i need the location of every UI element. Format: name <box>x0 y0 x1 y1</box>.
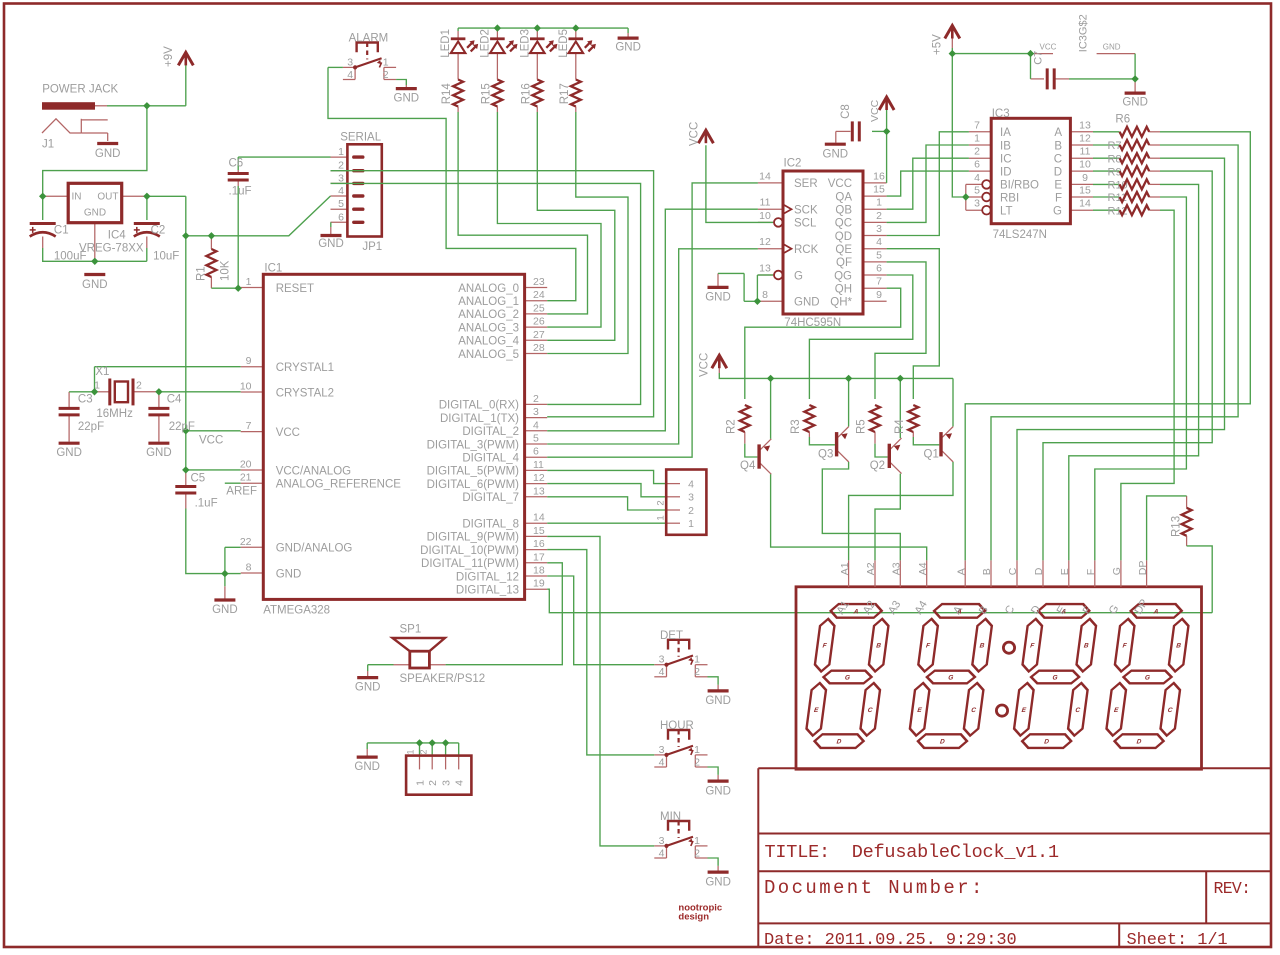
svg-text:GND: GND <box>276 568 302 580</box>
svg-text:10: 10 <box>759 210 771 222</box>
svg-text:2: 2 <box>427 780 439 786</box>
svg-text:GND: GND <box>82 279 108 291</box>
svg-text:3: 3 <box>440 780 452 786</box>
svg-text:F: F <box>1055 192 1062 204</box>
svg-text:9: 9 <box>876 289 882 301</box>
svg-text:2: 2 <box>694 847 700 859</box>
svg-text:1: 1 <box>876 197 882 209</box>
svg-text:VCC: VCC <box>699 353 711 377</box>
svg-text:4: 4 <box>533 419 539 431</box>
svg-text:DIGITAL_9(PWM): DIGITAL_9(PWM) <box>427 532 520 544</box>
svg-text:POWER JACK: POWER JACK <box>42 83 118 95</box>
svg-text:OUT: OUT <box>97 192 118 203</box>
svg-text:MIN: MIN <box>660 811 681 823</box>
svg-text:10: 10 <box>1079 159 1091 171</box>
svg-text:4: 4 <box>347 69 353 81</box>
svg-text:C1: C1 <box>54 224 69 236</box>
svg-text:G: G <box>1144 675 1150 682</box>
svg-text:SCK: SCK <box>794 205 818 217</box>
svg-text:3: 3 <box>347 56 353 68</box>
svg-text:2: 2 <box>383 69 389 81</box>
svg-text:QF: QF <box>836 257 852 269</box>
svg-text:VCC/ANALOG: VCC/ANALOG <box>276 465 351 477</box>
svg-text:R13: R13 <box>1171 516 1183 537</box>
svg-text:12: 12 <box>1079 133 1091 145</box>
svg-text:LED2: LED2 <box>479 29 491 58</box>
svg-text:GND: GND <box>394 93 420 105</box>
svg-text:C5: C5 <box>191 473 206 485</box>
svg-text:DIGITAL_13: DIGITAL_13 <box>456 585 519 597</box>
svg-text:5: 5 <box>974 185 980 197</box>
svg-text:23: 23 <box>533 276 545 288</box>
svg-text:3: 3 <box>659 744 665 756</box>
svg-text:4: 4 <box>876 236 882 248</box>
svg-text:6: 6 <box>338 211 344 223</box>
svg-text:RESET: RESET <box>276 283 314 295</box>
svg-text:E: E <box>1059 568 1071 575</box>
svg-text:RCK: RCK <box>794 244 819 256</box>
svg-text:16MHz: 16MHz <box>96 408 133 420</box>
svg-text:SPEAKER/PS12: SPEAKER/PS12 <box>400 673 486 685</box>
svg-text:R16: R16 <box>520 83 532 104</box>
svg-text:4: 4 <box>688 478 694 490</box>
svg-text:R3: R3 <box>790 419 802 434</box>
svg-text:7: 7 <box>974 119 980 131</box>
svg-text:IC3G$2: IC3G$2 <box>1078 14 1090 52</box>
svg-text:R14: R14 <box>441 83 453 105</box>
svg-text:C2: C2 <box>151 224 166 236</box>
svg-text:.1uF: .1uF <box>195 498 218 510</box>
svg-text:DP: DP <box>1137 561 1149 576</box>
svg-text:G: G <box>1052 675 1058 682</box>
svg-text:C: C <box>1054 154 1062 166</box>
svg-text:IC1: IC1 <box>264 262 282 274</box>
svg-text:12: 12 <box>759 236 771 248</box>
svg-text:11: 11 <box>760 197 771 209</box>
svg-text:24: 24 <box>533 289 545 301</box>
svg-text:VCC: VCC <box>689 122 701 146</box>
svg-text:2: 2 <box>694 756 700 768</box>
svg-text:G: G <box>794 270 803 282</box>
svg-text:DIGITAL_5(PWM): DIGITAL_5(PWM) <box>427 466 520 478</box>
svg-text:Document Number:: Document Number: <box>764 877 985 899</box>
svg-text:15: 15 <box>873 184 885 196</box>
svg-text:74LS247N: 74LS247N <box>993 229 1047 241</box>
svg-text:ID: ID <box>1000 166 1012 178</box>
svg-text:SERIAL: SERIAL <box>340 131 382 143</box>
svg-text:Q1: Q1 <box>924 448 939 460</box>
svg-text:E: E <box>1054 180 1062 192</box>
svg-text:IC4: IC4 <box>108 229 127 241</box>
svg-text:GND: GND <box>354 761 380 773</box>
svg-text:QA: QA <box>835 191 852 203</box>
svg-text:VCC: VCC <box>1040 42 1057 51</box>
svg-text:4: 4 <box>659 847 665 859</box>
svg-text:VREG-78XX: VREG-78XX <box>79 242 144 254</box>
svg-text:1: 1 <box>974 133 980 145</box>
svg-text:2: 2 <box>656 500 667 505</box>
svg-text:74HC595N: 74HC595N <box>784 317 841 329</box>
svg-text:LED5: LED5 <box>558 29 570 58</box>
svg-text:C: C <box>1007 567 1019 575</box>
svg-text:GND: GND <box>146 447 172 459</box>
svg-text:GND: GND <box>705 695 731 707</box>
svg-text:15: 15 <box>1079 185 1091 197</box>
svg-text:G: G <box>844 675 850 682</box>
svg-text:1: 1 <box>338 146 344 158</box>
svg-text:DIGITAL_0(RX): DIGITAL_0(RX) <box>439 400 519 412</box>
svg-text:C6: C6 <box>229 158 244 170</box>
svg-text:DIGITAL_4: DIGITAL_4 <box>462 453 519 465</box>
svg-text:B: B <box>1054 140 1062 152</box>
svg-text:GND: GND <box>84 208 106 219</box>
svg-text:.1uF: .1uF <box>229 185 252 197</box>
svg-text:QB: QB <box>835 205 852 217</box>
svg-text:A3: A3 <box>891 562 903 575</box>
svg-text:3: 3 <box>688 492 694 504</box>
svg-text:ANALOG_2: ANALOG_2 <box>458 309 519 321</box>
svg-text:GND: GND <box>705 785 731 797</box>
svg-text:VCC: VCC <box>199 435 223 447</box>
svg-text:REV:: REV: <box>1214 879 1251 898</box>
svg-text:SCL: SCL <box>794 218 817 230</box>
svg-text:QE: QE <box>835 244 852 256</box>
svg-text:DIGITAL_6(PWM): DIGITAL_6(PWM) <box>427 479 520 491</box>
svg-text:QH: QH <box>835 284 852 296</box>
svg-text:DIGITAL_11(PWM): DIGITAL_11(PWM) <box>421 558 519 570</box>
svg-text:DIGITAL_10(PWM): DIGITAL_10(PWM) <box>420 545 519 557</box>
svg-text:A: A <box>955 568 967 575</box>
svg-text:R5: R5 <box>856 419 868 434</box>
svg-text:13: 13 <box>1079 119 1091 131</box>
svg-text:Q2: Q2 <box>870 460 885 472</box>
svg-text:LT: LT <box>1000 206 1013 218</box>
svg-text:2: 2 <box>419 749 429 754</box>
svg-text:1: 1 <box>656 515 667 520</box>
svg-text:3: 3 <box>533 406 539 418</box>
svg-text:Date: 2011.09.25. 9:29:30: Date: 2011.09.25. 9:29:30 <box>764 931 1017 950</box>
svg-text:1: 1 <box>694 835 700 847</box>
svg-text:28: 28 <box>533 342 545 354</box>
svg-text:RBI: RBI <box>1000 192 1019 204</box>
svg-text:VCC: VCC <box>869 99 881 122</box>
svg-text:IA: IA <box>1000 127 1011 139</box>
svg-text:R17: R17 <box>559 83 571 104</box>
svg-text:GND: GND <box>355 682 381 694</box>
svg-text:22pF: 22pF <box>169 421 195 433</box>
svg-text:9: 9 <box>246 355 252 367</box>
svg-text:IC: IC <box>1000 154 1012 166</box>
svg-text:IB: IB <box>1000 140 1011 152</box>
svg-text:1: 1 <box>688 518 694 530</box>
svg-text:IC2: IC2 <box>784 158 802 170</box>
svg-text:C3: C3 <box>78 394 93 406</box>
svg-text:IN: IN <box>72 192 82 203</box>
svg-text:D: D <box>1033 567 1045 575</box>
svg-text:SER: SER <box>794 178 818 190</box>
svg-text:GND/ANALOG: GND/ANALOG <box>276 543 353 555</box>
svg-text:X1: X1 <box>95 366 109 378</box>
svg-text:2: 2 <box>338 160 344 172</box>
svg-text:13: 13 <box>533 485 545 497</box>
svg-text:GND: GND <box>705 292 731 304</box>
svg-text:1: 1 <box>694 744 700 756</box>
svg-text:ANALOG_4: ANALOG_4 <box>458 336 519 348</box>
svg-text:7: 7 <box>876 276 882 288</box>
svg-text:7: 7 <box>246 420 252 432</box>
svg-text:A2: A2 <box>865 562 877 575</box>
svg-text:17: 17 <box>533 551 545 563</box>
svg-text:GND: GND <box>794 297 820 309</box>
svg-text:ATMEGA328: ATMEGA328 <box>263 605 330 617</box>
svg-text:16: 16 <box>533 538 545 550</box>
svg-text:8: 8 <box>762 289 768 301</box>
svg-text:AREF: AREF <box>226 485 257 497</box>
svg-text:R2: R2 <box>725 419 737 434</box>
svg-text:18: 18 <box>533 565 545 577</box>
svg-text:2: 2 <box>136 380 142 392</box>
svg-text:26: 26 <box>533 316 545 328</box>
svg-text:6: 6 <box>974 159 980 171</box>
svg-text:R15: R15 <box>480 83 492 104</box>
svg-text:Q4: Q4 <box>740 460 756 472</box>
svg-text:GND: GND <box>615 42 641 54</box>
svg-text:IC3: IC3 <box>992 108 1010 120</box>
svg-text:C8: C8 <box>840 104 852 119</box>
svg-text:9: 9 <box>1082 172 1088 184</box>
svg-text:QC: QC <box>835 218 852 230</box>
svg-text:16: 16 <box>873 170 885 182</box>
svg-text:2: 2 <box>974 146 980 158</box>
svg-text:DIGITAL_3(PWM): DIGITAL_3(PWM) <box>427 439 520 451</box>
svg-text:2: 2 <box>533 393 539 405</box>
svg-text:14: 14 <box>1079 198 1091 210</box>
svg-text:DIGITAL_7: DIGITAL_7 <box>462 492 519 504</box>
svg-text:G: G <box>1053 206 1062 218</box>
svg-text:GND: GND <box>705 876 731 888</box>
svg-text:6: 6 <box>533 446 539 458</box>
svg-text:2: 2 <box>876 210 882 222</box>
svg-text:+9V: +9V <box>163 46 175 67</box>
svg-text:LED3: LED3 <box>519 29 531 58</box>
svg-text:3: 3 <box>659 835 665 847</box>
svg-text:8: 8 <box>246 562 252 574</box>
svg-text:12: 12 <box>533 472 545 484</box>
svg-text:5: 5 <box>338 198 344 210</box>
svg-text:ANALOG_0: ANALOG_0 <box>458 283 519 295</box>
svg-text:VCC: VCC <box>828 178 852 190</box>
svg-text:Q3: Q3 <box>818 448 833 460</box>
svg-text:C4: C4 <box>167 394 182 406</box>
svg-text:11: 11 <box>1080 146 1091 158</box>
svg-text:19: 19 <box>533 578 545 590</box>
svg-text:1: 1 <box>694 654 700 666</box>
svg-text:11: 11 <box>533 459 544 471</box>
svg-text:20: 20 <box>240 459 252 471</box>
svg-text:HOUR: HOUR <box>660 720 694 732</box>
svg-text:R4: R4 <box>894 419 906 434</box>
svg-text:3: 3 <box>876 223 882 235</box>
svg-text:15: 15 <box>533 525 545 537</box>
svg-text:design: design <box>678 912 709 923</box>
svg-text:ALARM: ALARM <box>349 33 389 45</box>
svg-text:27: 27 <box>533 329 545 341</box>
svg-text:QH*: QH* <box>830 297 852 309</box>
svg-text:+5V: +5V <box>932 34 944 55</box>
svg-text:GND: GND <box>56 447 82 459</box>
svg-text:C7: C7 <box>1033 51 1045 65</box>
svg-text:A: A <box>1054 127 1062 139</box>
svg-text:2: 2 <box>694 666 700 678</box>
svg-text:GND: GND <box>95 148 121 160</box>
svg-text:GND: GND <box>823 149 849 161</box>
svg-text:5: 5 <box>876 249 882 261</box>
svg-text:Sheet: 1/1: Sheet: 1/1 <box>1127 931 1228 950</box>
svg-text:DIGITAL_2: DIGITAL_2 <box>462 426 519 438</box>
svg-text:4: 4 <box>659 756 665 768</box>
svg-text:13: 13 <box>759 263 771 275</box>
svg-text:1: 1 <box>406 749 416 754</box>
svg-text:DIGITAL_1(TX): DIGITAL_1(TX) <box>440 413 519 425</box>
svg-text:2: 2 <box>688 505 694 517</box>
svg-text:G: G <box>948 675 954 682</box>
svg-text:10uF: 10uF <box>153 251 179 263</box>
svg-text:F: F <box>1085 569 1097 575</box>
svg-text:ANALOG_3: ANALOG_3 <box>458 322 519 334</box>
svg-text:GND: GND <box>1103 42 1121 51</box>
svg-text:J1: J1 <box>42 138 54 150</box>
svg-text:10: 10 <box>240 381 252 393</box>
svg-text:ANALOG_5: ANALOG_5 <box>458 349 519 361</box>
svg-text:3: 3 <box>659 654 665 666</box>
svg-text:1: 1 <box>94 380 100 392</box>
svg-text:100uF: 100uF <box>54 251 87 263</box>
svg-text:QG: QG <box>834 270 852 282</box>
svg-text:3: 3 <box>338 172 344 184</box>
svg-text:VCC: VCC <box>276 427 300 439</box>
svg-text:CRYSTAL1: CRYSTAL1 <box>276 362 334 374</box>
svg-text:4: 4 <box>974 172 980 184</box>
svg-text:GND: GND <box>212 604 238 616</box>
svg-text:1: 1 <box>383 56 389 68</box>
svg-text:R1: R1 <box>196 266 208 281</box>
svg-text:21: 21 <box>240 472 252 484</box>
svg-text:TITLE: DefusableClock_v1.1: TITLE: DefusableClock_v1.1 <box>765 842 1059 863</box>
svg-text:4: 4 <box>338 185 344 197</box>
svg-text:3: 3 <box>974 198 980 210</box>
svg-text:4: 4 <box>659 666 665 678</box>
svg-text:14: 14 <box>759 170 771 182</box>
svg-text:B: B <box>981 568 993 575</box>
svg-text:ANALOG_REFERENCE: ANALOG_REFERENCE <box>276 479 402 491</box>
svg-text:10K: 10K <box>220 260 232 281</box>
svg-text:22pF: 22pF <box>78 421 104 433</box>
svg-text:GND: GND <box>318 238 344 250</box>
svg-text:G: G <box>1111 567 1123 575</box>
svg-text:JP1: JP1 <box>362 241 382 253</box>
svg-text:6: 6 <box>876 263 882 275</box>
svg-text:GND: GND <box>1122 97 1148 109</box>
svg-text:DIGITAL_12: DIGITAL_12 <box>456 571 519 583</box>
svg-text:A1: A1 <box>839 562 851 575</box>
svg-text:D: D <box>1054 166 1062 178</box>
svg-text:A4: A4 <box>917 562 929 575</box>
svg-text:SP1: SP1 <box>400 623 422 635</box>
svg-text:1: 1 <box>414 780 426 786</box>
svg-text:1: 1 <box>246 276 252 288</box>
svg-text:R6: R6 <box>1115 114 1130 126</box>
svg-text:14: 14 <box>533 512 545 524</box>
svg-text:CRYSTAL2: CRYSTAL2 <box>276 387 334 399</box>
svg-text:DIGITAL_8: DIGITAL_8 <box>462 519 519 531</box>
svg-text:25: 25 <box>533 302 545 314</box>
svg-text:4: 4 <box>454 780 466 786</box>
svg-text:BI/RBO: BI/RBO <box>1000 180 1039 192</box>
svg-text:LED1: LED1 <box>440 29 452 58</box>
svg-text:ANALOG_1: ANALOG_1 <box>458 296 519 308</box>
svg-text:DET: DET <box>660 630 683 642</box>
svg-text:5: 5 <box>533 433 539 445</box>
svg-text:QD: QD <box>835 231 852 243</box>
svg-text:22: 22 <box>240 536 252 548</box>
